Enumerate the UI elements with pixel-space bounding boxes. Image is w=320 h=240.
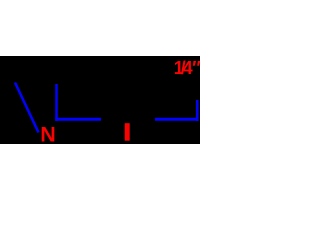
svg-text:N: N xyxy=(40,123,56,147)
svg-text:″: ″ xyxy=(192,58,200,78)
svg-text:1/4: 1/4 xyxy=(174,58,193,78)
